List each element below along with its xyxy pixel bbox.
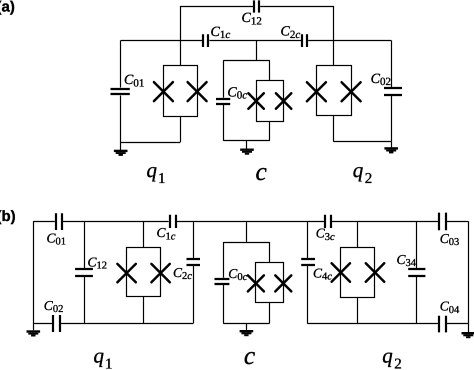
wire: panel a second rail middle segment <box>209 40 301 42</box>
Josephson junction X q1 right panel b <box>151 264 169 282</box>
svg-text:C4c: C4c <box>313 266 332 283</box>
svg-text:c: c <box>244 341 256 370</box>
wire: panel a bottom right <box>334 141 391 143</box>
wire: ground stub panel b middle <box>246 323 248 330</box>
wire: panel b bottom left rail seg1 <box>33 323 52 325</box>
wire: panel a middle loop top <box>223 60 269 62</box>
svg-text:C0c: C0c <box>228 266 247 283</box>
wire: q2 top stub panel b <box>357 221 359 247</box>
ground symbol panel b right <box>462 332 474 338</box>
wire: panel a right vertical from top rail to q2 SQUID <box>333 6 335 65</box>
ground symbol panel a middle <box>240 149 254 155</box>
wire: C4c branch upper <box>307 221 309 258</box>
svg-text:C2c: C2c <box>281 25 301 41</box>
capacitor C03 plates panel b <box>439 213 446 231</box>
wire: c SQUID bottom stub <box>269 121 271 141</box>
SQUID loop box c panel b <box>256 263 284 303</box>
wire: ground stub middle <box>246 141 248 149</box>
capacitor C04 plates panel b <box>439 316 446 333</box>
svg-text:C03: C03 <box>440 231 460 248</box>
wire: C4c branch lower <box>307 266 309 324</box>
SQUID loop box q1 panel b <box>127 248 161 297</box>
wire: panel b middle loop bottom <box>223 323 269 325</box>
wire: q1 top stub panel b <box>143 221 145 247</box>
capacitor C02 plates panel b <box>53 315 60 332</box>
svg-text:q1: q1 <box>147 158 166 187</box>
SQUID loop box q2 panel b <box>341 248 375 298</box>
wire: panel a top rail left segment <box>180 6 253 8</box>
wire: panel b top rail seg5 <box>447 221 468 223</box>
wire: panel b middle loop left upper <box>223 242 225 278</box>
SQUID loop box q2 <box>317 66 352 116</box>
wire: ground stub right <box>391 142 393 148</box>
ground symbol panel a right <box>384 147 398 153</box>
wire: panel b center stub <box>246 221 248 242</box>
capacitor C0c plates panel b <box>215 279 230 284</box>
wire: panel b right vertical <box>468 221 470 324</box>
svg-text:C0c: C0c <box>227 85 247 101</box>
capacitor C01 plates panel b <box>56 213 62 230</box>
capacitor C2c plates <box>302 34 307 47</box>
svg-text:c: c <box>256 157 268 186</box>
wire: C2c branch upper <box>193 221 195 258</box>
wire: panel b top rail seg3 <box>177 221 324 223</box>
capacitor C0c plates <box>216 99 230 104</box>
capacitor C02 plates <box>384 88 402 95</box>
wire: panel a middle loop left lower <box>223 105 225 141</box>
svg-text:C2c: C2c <box>173 265 192 282</box>
wire: q1 bottom stub <box>180 116 182 142</box>
svg-text:q2: q2 <box>382 344 402 370</box>
Josephson junction X q2 left <box>307 82 326 101</box>
wire: C34 branch lower <box>416 277 418 324</box>
capacitor C01 plates <box>111 89 130 94</box>
svg-text:C3c: C3c <box>316 226 335 243</box>
wire: panel a right branch lower <box>391 96 393 142</box>
svg-text:C02: C02 <box>371 72 391 88</box>
SQUID loop box q1 <box>164 66 198 117</box>
wire: panel a top rail right segment <box>260 6 334 8</box>
svg-text:q2: q2 <box>353 158 373 187</box>
wire: panel a center stub from second rail <box>256 40 258 60</box>
wire: panel a left vertical from top rail to q1 SQUID <box>180 6 182 66</box>
svg-text:C34: C34 <box>397 252 417 269</box>
Josephson junction X c right <box>276 93 291 108</box>
wire: panel b left vertical <box>33 221 35 323</box>
ground symbol panel a left <box>114 150 128 156</box>
wire: panel a second rail left segment <box>121 40 203 42</box>
wire: panel a middle loop bottom <box>223 140 269 142</box>
capacitor C1c plates panel b <box>170 215 176 228</box>
wire: q1 bottom stub panel b <box>143 297 145 324</box>
wire: C34 branch upper <box>416 221 418 268</box>
wire: c SQUID top stub <box>269 60 271 81</box>
capacitor C12 plates <box>254 0 259 12</box>
Josephson junction X q2 left panel b <box>332 263 350 281</box>
svg-text:C01: C01 <box>47 230 67 247</box>
SQUID loop box c <box>257 81 284 122</box>
wire: panel b bottom right rail seg1 <box>308 323 439 325</box>
wire: q2 bottom stub panel b <box>357 297 359 323</box>
Josephson junction X c right panel b <box>275 275 291 291</box>
svg-text:C12: C12 <box>88 254 108 271</box>
svg-text:(b): (b) <box>0 208 16 225</box>
capacitor C3c plates panel b <box>325 215 331 228</box>
ground symbol panel b left <box>27 330 41 336</box>
wire: panel a right branch upper <box>391 40 393 87</box>
Josephson junction X q1 right <box>188 82 207 101</box>
wire: c SQUID bottom stub panel b <box>269 302 271 323</box>
wire: C12 branch upper <box>84 221 86 268</box>
ground symbol panel b middle <box>240 330 254 336</box>
Josephson junction X q2 right <box>342 82 361 101</box>
svg-text:C1c: C1c <box>211 25 231 41</box>
svg-text:C12: C12 <box>242 11 262 27</box>
Josephson junction X q2 right panel b <box>366 263 384 281</box>
wire: ground stub bottom left <box>33 324 35 331</box>
wire: panel b top rail seg4 <box>332 221 439 223</box>
capacitor C1c plates <box>203 34 208 47</box>
wire: c SQUID top stub panel b <box>269 242 271 263</box>
wire: C2c branch lower <box>193 266 195 324</box>
wire: panel a left branch lower <box>120 96 122 143</box>
capacitor C12 plates panel b <box>75 269 93 276</box>
Josephson junction X c left panel b <box>248 275 264 291</box>
Josephson junction X c left <box>248 93 263 108</box>
wire: q2 bottom stub <box>333 115 335 141</box>
capacitor C34 plates panel b <box>408 269 425 276</box>
svg-text:(a): (a) <box>0 0 15 16</box>
svg-text:C04: C04 <box>440 299 460 316</box>
wire: panel a middle loop left upper <box>223 60 225 97</box>
wire: ground stub left <box>120 142 122 150</box>
wire: ground stub bottom right <box>468 324 470 332</box>
wire: panel a left branch upper <box>120 40 122 87</box>
wire: C12 branch lower <box>84 277 86 324</box>
Josephson junction X q1 left panel b <box>117 264 135 282</box>
capacitor C4c plates panel b <box>301 259 315 265</box>
wire: panel b middle loop left lower <box>223 285 225 324</box>
svg-text:q1: q1 <box>94 344 113 370</box>
wire: panel b bottom right rail seg2 <box>447 323 468 325</box>
wire: panel b top rail seg1 <box>33 221 55 223</box>
svg-text:C1c: C1c <box>157 225 176 242</box>
svg-text:C02: C02 <box>44 298 64 315</box>
wire: panel a bottom left <box>121 142 181 144</box>
wire: panel b middle loop top <box>223 242 269 244</box>
wire: panel b bottom left rail seg2 <box>61 323 193 325</box>
wire: panel b top rail seg2 <box>63 221 169 223</box>
svg-text:C01: C01 <box>124 73 144 89</box>
capacitor C2c plates panel b <box>187 259 201 265</box>
Josephson junction X q1 left <box>154 82 173 101</box>
wire: panel a second rail right segment <box>308 40 391 42</box>
